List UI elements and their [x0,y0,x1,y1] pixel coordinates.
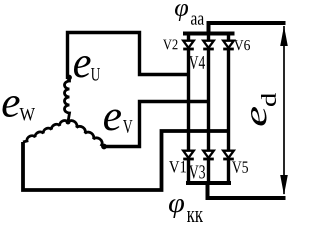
wire: phase V from winding eV end up to bridge column 2 [104,102,209,147]
diode V4 [203,41,214,48]
wire: bridge column 1 top stub [187,34,190,42]
ed output-voltage dimension arrow [283,26,285,194]
node phi_aa: anode-group potential label [175,4,188,21]
label eV [104,110,121,131]
wire: phase U from winding eU top, over the top-left loop to bridge column 1 [68,33,189,80]
diode V3 [203,151,214,158]
wire: bridge column 1 bottom segment [187,160,190,183]
diode V5 [223,151,234,158]
label eW [3,96,20,117]
diode V1 [183,151,194,158]
diode V6 [223,41,234,48]
wire: bottom output lead to ed arrow [208,183,286,198]
wire: anode-group top rail [183,32,235,36]
winding eV (phase V coil) [68,121,104,147]
wire: bridge column 2 middle segment [207,50,210,151]
wire: bridge column 2 bottom segment [207,160,210,183]
wire: bridge column 3 middle segment [227,50,230,151]
winding eW (phase W coil) [23,121,68,142]
label ed (rotated) [251,107,267,126]
node: star point of the wye source [66,120,71,125]
wire: bridge column 3 top stub [227,34,230,42]
node: junction dot at end of winding eV [101,144,107,150]
wire: cathode-group bottom rail [186,181,231,185]
node: junction dot at top of winding eU [66,75,72,81]
wire: bridge column 1 middle segment [187,50,190,151]
wire: top output lead to ed arrow [209,23,286,34]
wire: bridge column 3 bottom segment [227,160,230,183]
wire: phase W from winding eW end down along bottom then up to bridge column 3 [23,131,229,190]
winding eU (phase U coil) [65,78,70,122]
node phi_kk: cathode-group potential label [169,199,184,218]
diode V2 [183,41,194,48]
wire: bridge column 2 top stub [207,34,210,42]
label eU [74,56,91,78]
